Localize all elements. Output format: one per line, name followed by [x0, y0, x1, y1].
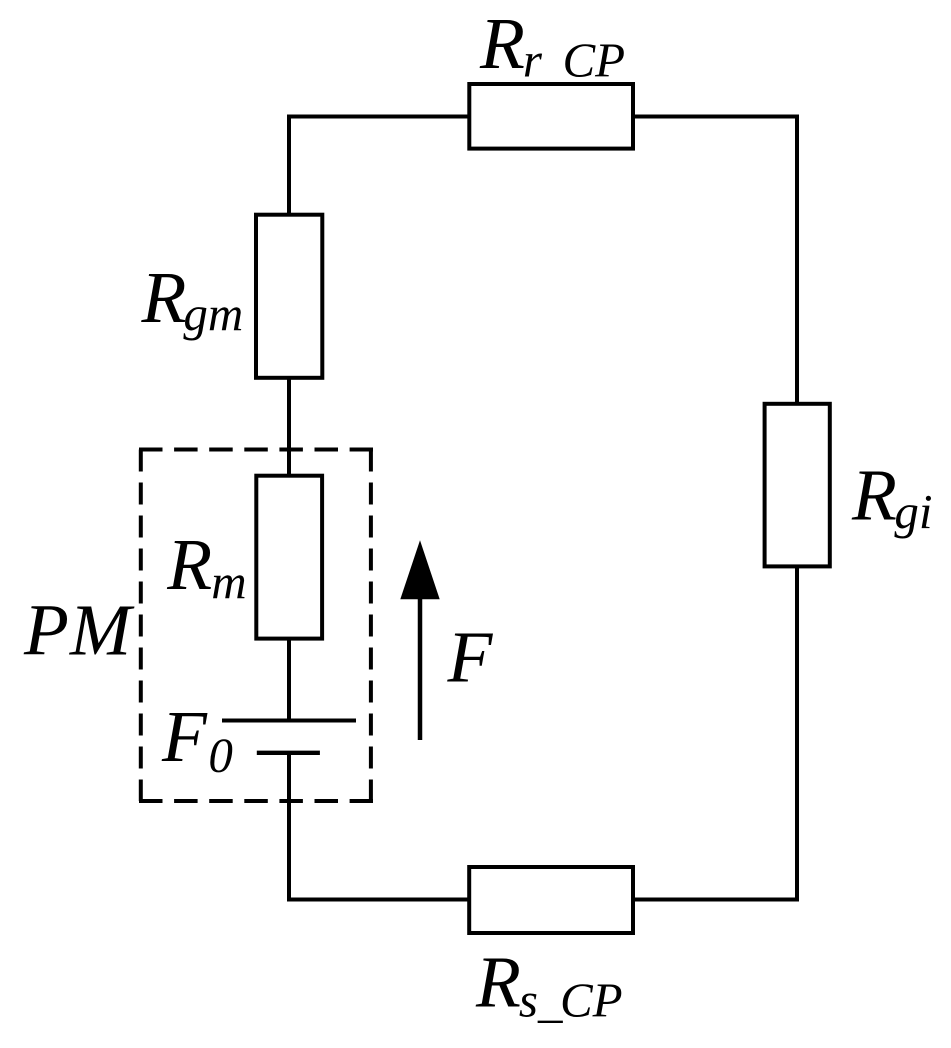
- PM dashed box right edge: [369, 450, 373, 802]
- wire bottom-right horizontal: [631, 898, 799, 902]
- PM dashed box left edge: [139, 450, 143, 802]
- svg-text:F: F: [447, 617, 494, 698]
- PM dashed box top edge: [139, 448, 373, 452]
- resistor Rs_CP: [469, 867, 633, 933]
- resistor Rgm: [256, 215, 322, 378]
- wire top-left horizontal: [287, 115, 471, 119]
- flux arrow F head: [400, 540, 439, 599]
- svg-text:PM: PM: [23, 590, 135, 671]
- wire left vertical upper: [287, 115, 291, 217]
- wire top-right horizontal: [631, 115, 799, 119]
- wire right vertical upper: [795, 115, 799, 406]
- resistor Rm: [256, 476, 322, 639]
- resistor Rgi: [765, 404, 830, 567]
- wire Rm to F0 plate: [287, 637, 291, 721]
- wire bottom-left horizontal: [287, 898, 471, 902]
- PM dashed box bottom edge: [139, 799, 373, 803]
- resistor Rr_CP: [469, 84, 633, 149]
- flux arrow F shaft: [418, 598, 423, 740]
- wire F0 to bottom: [287, 753, 291, 902]
- mmf source F0 short plate: [257, 751, 320, 755]
- wire between Rgm and Rm: [287, 376, 291, 477]
- wire right vertical lower: [795, 565, 799, 902]
- mmf source F0 long plate: [222, 719, 356, 723]
